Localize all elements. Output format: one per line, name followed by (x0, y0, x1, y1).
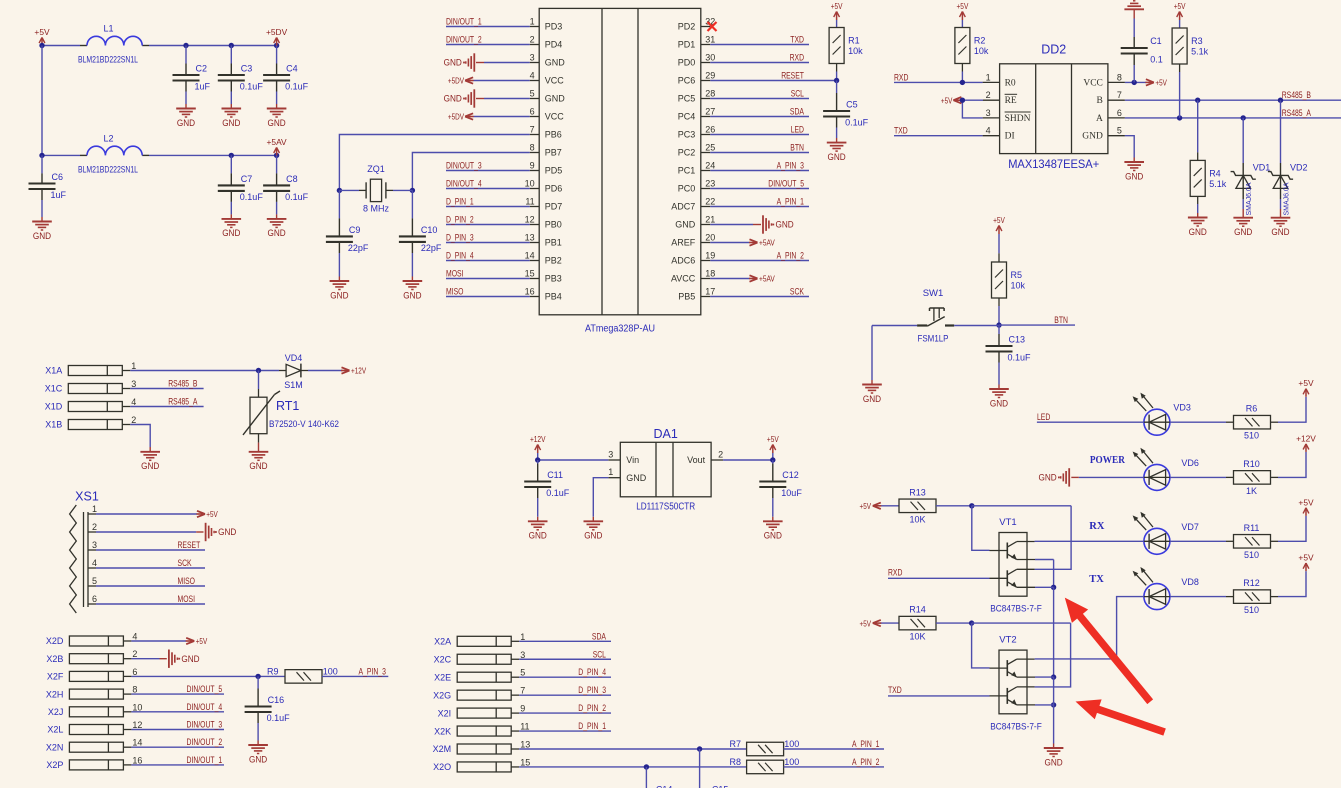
R14 labels (909, 605, 926, 642)
svg-text:PB1: PB1 (545, 238, 562, 248)
svg-text:X1B: X1B (45, 420, 62, 430)
svg-text:PD3: PD3 (545, 22, 563, 32)
wire net LED (1037, 412, 1144, 422)
wire to gnd (1053, 677, 1055, 748)
svg-text:RS485_B: RS485_B (1282, 90, 1311, 100)
connector pin X2K (434, 722, 529, 737)
wire to VT2 base1 (972, 623, 990, 668)
label TX (1089, 574, 1104, 585)
svg-text:GND: GND (675, 220, 696, 230)
ground GND pin 5 (444, 89, 475, 107)
svg-text:R1: R1 (848, 36, 860, 46)
XS1 pin 5 (88, 576, 97, 586)
svg-text:10k: 10k (1011, 281, 1026, 291)
svg-text:DIN/OUT_4: DIN/OUT_4 (187, 702, 223, 712)
DD2 pin 7 B (1097, 90, 1125, 106)
svg-text:5: 5 (520, 668, 525, 678)
svg-text:ADC7: ADC7 (671, 202, 695, 212)
svg-text:RXD: RXD (894, 72, 909, 82)
wire net DIN/OUT_1 (131, 755, 224, 765)
wire to power (1271, 397, 1307, 423)
svg-text:BLM21BD222SN1L: BLM21BD222SN1L (78, 165, 138, 175)
svg-text:C16: C16 (268, 695, 285, 705)
svg-text:D_PIN_2: D_PIN_2 (578, 703, 606, 713)
connector pin X2I (438, 704, 526, 719)
regulator DA1 body (620, 427, 711, 513)
svg-text:+12V: +12V (351, 366, 366, 376)
MCU pin 7 PB6 (530, 125, 562, 140)
svg-text:A_PIN_1: A_PIN_1 (777, 197, 804, 207)
VT2 part label (990, 721, 1042, 732)
svg-text:1: 1 (986, 72, 991, 82)
power flag +5V (34, 27, 50, 46)
svg-text:16: 16 (525, 287, 535, 297)
TVS diode VD1 (1231, 118, 1271, 218)
svg-text:3: 3 (530, 53, 535, 63)
svg-text:X1D: X1D (45, 402, 63, 412)
ground GND pin 21 (763, 215, 794, 233)
node RESET junction (834, 78, 839, 83)
wire X1B to gnd (130, 425, 150, 452)
connector pin X2E (434, 668, 525, 683)
svg-text:PD7: PD7 (545, 202, 563, 212)
svg-text:3: 3 (520, 650, 525, 660)
wire net D_PIN_2 (519, 703, 611, 713)
wire net RESET (710, 71, 836, 81)
wire net A_PIN_2 (710, 251, 809, 261)
XS1 pin 2 (88, 522, 97, 532)
wire net SCL (710, 89, 809, 99)
svg-text:25: 25 (705, 143, 715, 153)
svg-text:SDA: SDA (592, 631, 606, 641)
label POWER (1090, 455, 1125, 466)
wire to power (1271, 571, 1307, 597)
svg-text:SHDN: SHDN (1005, 114, 1031, 124)
MCU pin 22 ADC7 (671, 197, 715, 212)
wire net MISO (446, 287, 530, 297)
svg-text:15: 15 (525, 269, 535, 279)
connector pin X2O (433, 757, 530, 772)
svg-text:C4: C4 (286, 64, 298, 74)
svg-text:C12: C12 (782, 470, 799, 480)
wire net A_PIN_3 (322, 666, 388, 676)
wire (1197, 100, 1199, 160)
svg-text:RS485_A: RS485_A (1282, 108, 1311, 118)
svg-text:GND: GND (444, 94, 463, 104)
wire net DIN/OUT_5 (131, 684, 224, 694)
svg-text:+12V: +12V (1296, 433, 1316, 443)
svg-text:+5AV: +5AV (759, 274, 775, 284)
svg-text:PC5: PC5 (678, 94, 696, 104)
wire X2O to R8 (519, 764, 746, 769)
svg-text:GND: GND (1125, 171, 1144, 181)
no-connect X pin 32 (708, 22, 717, 31)
svg-text:VD2: VD2 (1290, 163, 1308, 173)
svg-text:24: 24 (705, 161, 715, 171)
capacitor C13 (986, 325, 1032, 389)
svg-text:+5V: +5V (1298, 497, 1314, 507)
svg-text:PC1: PC1 (678, 166, 696, 176)
svg-text:AREF: AREF (671, 238, 696, 248)
wire +5V to RE/SHDN (941, 95, 983, 118)
svg-text:7: 7 (1117, 90, 1122, 100)
resistor R8 (747, 760, 784, 774)
ground GND pin 3 (444, 53, 475, 71)
ground DD2 (1124, 162, 1144, 181)
wire net A_PIN_3 (710, 161, 809, 171)
wire R14 node (936, 620, 1071, 625)
wire net BTN (710, 143, 809, 153)
R6 labels (1244, 404, 1259, 441)
crystal ZQ1 8MHz (339, 164, 412, 214)
svg-text:GND: GND (863, 394, 882, 404)
svg-text:Vin: Vin (626, 455, 639, 465)
svg-text:C6: C6 (52, 172, 64, 182)
wire net RS485_B (1125, 90, 1341, 103)
svg-text:C7: C7 (241, 174, 253, 184)
svg-text:L1: L1 (103, 24, 113, 34)
power flag +5V R1 (831, 1, 843, 20)
svg-text:10k: 10k (848, 46, 863, 56)
wire (871, 326, 873, 385)
svg-text:1: 1 (530, 17, 535, 27)
svg-text:26: 26 (705, 125, 715, 135)
MCU pin 2 PD4 (530, 35, 563, 50)
ground C11 (528, 521, 548, 540)
svg-text:2: 2 (131, 415, 136, 425)
svg-text:3: 3 (608, 450, 613, 460)
wire (476, 98, 530, 100)
svg-text:VT2: VT2 (999, 634, 1016, 645)
wire DA1 gnd (593, 478, 608, 522)
svg-text:+5AV: +5AV (759, 238, 775, 248)
wire net RS485_A X1D (130, 397, 203, 407)
wire net SCL (519, 649, 611, 659)
svg-text:R13: R13 (909, 487, 926, 497)
wire to VT1 collector2 (1035, 506, 1072, 570)
DA1 pin 3 Vin (608, 450, 639, 466)
svg-text:5: 5 (530, 89, 535, 99)
node BTN junction (996, 322, 1001, 327)
svg-text:A_PIN_3: A_PIN_3 (359, 666, 386, 676)
svg-text:BTN: BTN (1054, 315, 1068, 325)
wire +5DV rail (149, 43, 279, 48)
resistor R4 (1190, 160, 1227, 196)
svg-text:B: B (1097, 96, 1103, 106)
wire net D_PIN_1 (446, 197, 530, 207)
svg-text:GND: GND (177, 118, 196, 128)
DD2 SHDN overline (1005, 111, 1031, 113)
svg-text:TXD: TXD (894, 126, 908, 136)
svg-text:+5V: +5V (206, 509, 218, 519)
LED VD6 (1133, 448, 1199, 491)
power flag +5AV (267, 137, 288, 156)
svg-text:VCC: VCC (545, 112, 565, 122)
resistor R7 (747, 742, 784, 756)
svg-text:B72520-V 140-K62: B72520-V 140-K62 (269, 419, 339, 429)
svg-text:PC4: PC4 (678, 112, 696, 122)
svg-text:VD6: VD6 (1181, 458, 1199, 468)
svg-text:L2: L2 (103, 134, 113, 144)
wire net D_PIN_3 (446, 233, 530, 243)
svg-text:DI: DI (1005, 132, 1015, 142)
LED VD7 (1133, 512, 1199, 555)
wire net +5AV (710, 274, 775, 284)
capacitor C14 partial (656, 785, 673, 788)
svg-text:SCK: SCK (790, 287, 804, 297)
resistor R13 (899, 499, 936, 513)
svg-text:+5V: +5V (196, 636, 208, 646)
svg-text:C11: C11 (547, 470, 563, 480)
transistor VT2 BC847BS-7-F (990, 634, 1036, 713)
DA1 pin 2 Vout (687, 450, 723, 466)
svg-text:X2B: X2B (46, 654, 63, 664)
svg-text:DIN/OUT_2: DIN/OUT_2 (187, 737, 223, 747)
svg-text:1K: 1K (1246, 486, 1257, 496)
svg-text:LD1117S50CTR: LD1117S50CTR (636, 502, 695, 513)
svg-text:SW1: SW1 (923, 288, 944, 299)
ground C2 (176, 109, 196, 128)
node crystal left (337, 188, 342, 193)
capacitor C2 (173, 46, 211, 109)
svg-text:100: 100 (784, 739, 799, 749)
svg-text:DIN/OUT_1: DIN/OUT_1 (187, 755, 223, 765)
XS1 pin 4 (88, 558, 97, 568)
wire net DIN/OUT_2 (131, 737, 224, 747)
wire net A_PIN_1 (710, 197, 809, 207)
svg-text:30: 30 (705, 53, 715, 63)
ground C1 top (1124, 1, 1144, 10)
wire (1179, 20, 1181, 28)
wire net D_PIN_2 (446, 215, 530, 225)
svg-text:31: 31 (705, 35, 715, 45)
power flag +12V (1296, 433, 1316, 452)
svg-text:GND: GND (249, 461, 268, 471)
svg-text:VCC: VCC (545, 76, 565, 86)
svg-text:X2N: X2N (46, 742, 64, 752)
svg-text:8: 8 (1117, 72, 1122, 82)
wire net RXD (710, 53, 809, 63)
resistor R5 (992, 262, 1026, 298)
svg-text:FSM1LP: FSM1LP (918, 334, 949, 345)
wire net A_PIN_1 (784, 739, 884, 749)
svg-text:MISO: MISO (178, 576, 196, 586)
ground X2B (169, 650, 200, 668)
MCU pin 25 PC2 (678, 143, 716, 158)
svg-text:5: 5 (92, 576, 97, 586)
svg-text:16: 16 (132, 755, 142, 765)
ground RT1 (249, 452, 269, 471)
svg-text:+5V: +5V (993, 215, 1005, 225)
svg-text:PB7: PB7 (545, 148, 562, 158)
wire VT1 collector1 RX (1035, 540, 1144, 542)
capacitor C4 (263, 46, 309, 109)
MCU pin 10 PD6 (525, 179, 563, 194)
svg-text:X2L: X2L (47, 725, 63, 735)
svg-text:0.1uF: 0.1uF (267, 713, 291, 723)
svg-text:1: 1 (520, 632, 525, 642)
connector pin X2F (47, 667, 138, 682)
svg-text:PD1: PD1 (678, 40, 696, 50)
svg-text:GND: GND (1189, 227, 1208, 237)
connector pin X2J (48, 702, 143, 717)
svg-text:A_PIN_2: A_PIN_2 (777, 251, 804, 261)
svg-text:C5: C5 (846, 100, 858, 110)
wire net D_PIN_1 (519, 721, 611, 731)
svg-text:6: 6 (1117, 108, 1122, 118)
svg-text:MOSI: MOSI (178, 594, 196, 604)
svg-text:C8: C8 (286, 174, 298, 184)
power flag +5V R5 (993, 215, 1005, 234)
svg-text:RESET: RESET (178, 540, 201, 550)
svg-text:X2P: X2P (46, 760, 63, 770)
wire (476, 62, 530, 64)
svg-text:PC6: PC6 (678, 76, 696, 86)
connector pin X1A (45, 361, 136, 376)
svg-text:100: 100 (323, 666, 338, 676)
svg-text:ADC6: ADC6 (671, 256, 695, 266)
R7 labels (729, 739, 799, 749)
svg-text:4: 4 (132, 632, 137, 642)
node crystal right (410, 188, 415, 193)
ground POWER led (1039, 468, 1070, 486)
resistor R2 (955, 28, 989, 64)
XS1 pin 1 (88, 504, 97, 514)
wire (96, 531, 204, 533)
svg-text:GND: GND (222, 228, 241, 238)
capacitor C7 (218, 155, 264, 219)
R12 labels (1243, 578, 1260, 615)
svg-text:7: 7 (530, 125, 535, 135)
transistor VT1 BC847BS-7-F (990, 517, 1036, 596)
svg-text:23: 23 (705, 179, 715, 189)
svg-text:13: 13 (525, 233, 535, 243)
LED VD3 (1133, 393, 1191, 436)
svg-text:PC3: PC3 (678, 130, 696, 140)
svg-text:GND: GND (249, 754, 268, 764)
svg-text:11: 11 (525, 197, 534, 207)
svg-text:X2E: X2E (434, 672, 451, 682)
svg-text:6: 6 (92, 594, 97, 604)
svg-text:+5V: +5V (1298, 378, 1314, 388)
svg-text:GND: GND (1082, 132, 1103, 142)
svg-text:X2I: X2I (438, 708, 452, 718)
MCU pin 21 GND (675, 215, 715, 230)
svg-text:0.1uF: 0.1uF (285, 192, 309, 202)
svg-text:A_PIN_2: A_PIN_2 (852, 757, 879, 767)
svg-text:C3: C3 (241, 64, 253, 74)
svg-text:TX: TX (1089, 574, 1104, 585)
svg-text:A_PIN_3: A_PIN_3 (777, 161, 804, 171)
wire net TXD VT2 (888, 685, 990, 696)
connector XS1 header (75, 490, 99, 504)
svg-text:R5: R5 (1011, 270, 1023, 280)
svg-text:X2G: X2G (433, 690, 451, 700)
wire X2F to R9 (131, 674, 285, 679)
ground C7 (222, 219, 242, 238)
svg-text:R4: R4 (1209, 168, 1221, 178)
svg-text:9: 9 (530, 161, 535, 171)
wire to power (1271, 452, 1307, 478)
wire to C15 (699, 749, 701, 788)
diode VD4 S1M (284, 353, 308, 390)
inductor L1 (78, 24, 149, 65)
DA1 pin 1 GND (608, 467, 647, 483)
svg-text:VD4: VD4 (285, 353, 303, 363)
svg-text:7: 7 (520, 686, 525, 696)
svg-text:D_PIN_1: D_PIN_1 (446, 197, 474, 207)
wire net BTN (999, 315, 1075, 325)
ground R4 (1188, 218, 1208, 237)
svg-text:510: 510 (1244, 605, 1259, 615)
wire net +5DV (448, 76, 530, 86)
svg-text:17: 17 (705, 287, 715, 297)
svg-text:PD0: PD0 (678, 58, 696, 68)
svg-text:+5V: +5V (1298, 553, 1314, 563)
MCU pin 4 VCC (530, 71, 565, 86)
svg-text:14: 14 (132, 738, 142, 748)
ground VD1 (1233, 218, 1253, 237)
svg-text:X2J: X2J (48, 707, 64, 717)
connector XS1 contacts (70, 505, 77, 613)
svg-text:+5V: +5V (767, 434, 779, 444)
resistor R12 (1234, 590, 1271, 604)
DD2 pin 8 VCC (1083, 72, 1125, 88)
svg-text:2: 2 (986, 90, 991, 100)
resistor R6 (1234, 415, 1271, 429)
MCU pin 15 PB3 (525, 269, 562, 284)
svg-text:LED: LED (1037, 412, 1051, 422)
power flag +5V (1298, 497, 1314, 516)
VT1 part label (990, 604, 1042, 615)
svg-text:1uF: 1uF (51, 190, 67, 200)
wire net +5V R13 (860, 501, 900, 511)
power flag +12V DA1 (530, 434, 546, 453)
connector pin X2C (434, 650, 526, 665)
svg-text:RX: RX (1089, 521, 1105, 532)
svg-text:+5V: +5V (34, 27, 50, 37)
svg-text:+12V: +12V (530, 434, 546, 444)
ground C9 (330, 281, 350, 300)
MCU pin 32 PD2 (678, 17, 716, 32)
svg-text:+5V: +5V (957, 1, 969, 11)
svg-text:D_PIN_3: D_PIN_3 (578, 685, 606, 695)
svg-text:BLM21BD222SN1L: BLM21BD222SN1L (78, 55, 138, 65)
svg-text:GND: GND (1045, 757, 1064, 767)
DD2 pin 5 GND (1082, 126, 1125, 142)
DD2 RE overline (1005, 93, 1018, 95)
svg-text:R10: R10 (1243, 459, 1260, 469)
svg-text:+5V: +5V (860, 618, 872, 628)
wire (836, 20, 838, 28)
wire net SCK (96, 558, 205, 568)
svg-text:+5V: +5V (1174, 1, 1186, 11)
svg-text:X2A: X2A (434, 637, 451, 647)
svg-text:+5DV: +5DV (266, 27, 288, 37)
wire (836, 64, 838, 81)
MCU pin 26 PC3 (678, 125, 716, 140)
svg-text:6: 6 (132, 667, 137, 677)
wire VT2 collector1 TX (1035, 597, 1144, 659)
svg-text:10: 10 (132, 702, 142, 712)
label RX (1089, 521, 1105, 532)
wire X1A to +12V (130, 368, 286, 373)
resistor R10 (1234, 471, 1271, 485)
svg-text:RT1: RT1 (276, 399, 299, 413)
wire net SDA (519, 631, 611, 641)
svg-text:1: 1 (92, 504, 97, 514)
svg-text:10uF: 10uF (781, 488, 802, 498)
